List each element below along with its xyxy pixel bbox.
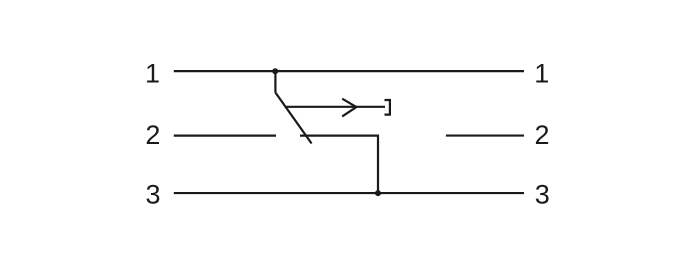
wire: net 2 left segment [174,135,276,137]
switch S1: movable contact lever [275,93,311,144]
svg-text:3: 3 [535,180,550,210]
node B: junction on net 3 [375,190,381,196]
node A: junction on net 1 [272,68,278,74]
svg-text:2: 2 [534,120,549,150]
svg-text:3: 3 [145,180,160,210]
wire: throw contact segment down to net 3 [300,136,378,193]
wire: net 2 right segment [446,134,524,136]
actuator: arrow shaft [285,106,386,108]
svg-text:1: 1 [534,59,549,89]
svg-text:2: 2 [145,120,160,150]
wire: net 3 horizontal [174,192,524,194]
wire: net 1 horizontal [174,70,524,72]
svg-text:1: 1 [145,59,160,89]
actuator: arrowhead [342,99,356,117]
wire: pole riser from node A [274,71,276,92]
actuator: stop bracket [385,100,390,115]
